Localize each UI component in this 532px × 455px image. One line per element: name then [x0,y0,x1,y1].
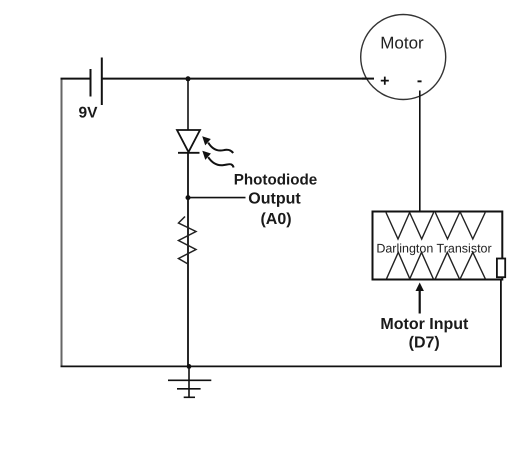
darlington transistor U1 [373,212,506,280]
wire: motor negative to darlington collector [419,91,421,212]
label: Photodiode Output (A0) [234,172,318,229]
label: Motor Input (D7) [380,316,469,352]
svg-text:9V: 9V [79,105,99,122]
wire: top-left stub to battery [61,78,91,80]
junction node: top rail / photodiode branch [186,76,191,81]
wire: photodiode to bottom rail [187,153,189,367]
junction node: ground [187,364,192,369]
wire: right vertical (darlington emitter pin to bottom rail) [500,277,502,366]
svg-text:+: + [380,73,389,90]
wire: left vertical (battery negative to bottom rail) [61,79,63,367]
svg-text:(A0): (A0) [260,211,291,228]
motor M1 [361,15,446,100]
svg-text:Motor Input: Motor Input [380,316,469,333]
svg-text:Output: Output [248,191,301,208]
ground [168,366,211,397]
wire: top junction down to photodiode [187,79,189,130]
wire: bottom rail [61,365,502,367]
svg-text:Photodiode: Photodiode [234,172,318,189]
arrow: motor input pointer [416,283,424,314]
bottom A pattern [387,252,486,278]
light arrow 2 [208,157,233,167]
light arrow 1 [208,143,233,153]
photodiode D1 [177,130,234,168]
svg-text:(D7): (D7) [409,335,440,352]
svg-text:Motor: Motor [380,34,424,53]
junction node A0 (photodiode output) [186,195,191,200]
wire: output tap to label [188,197,246,199]
pin: emitter tab [497,259,505,278]
svg-text:-: - [417,73,422,90]
battery B1 (9V) [91,58,102,106]
wire: stub into motor plus terminal [362,78,374,80]
top V pattern [386,213,485,240]
svg-text:Darlington Transistor: Darlington Transistor [376,242,491,256]
wire: top rail battery to motor [102,78,374,80]
resistor R1 (zigzag over wire) [179,217,197,265]
